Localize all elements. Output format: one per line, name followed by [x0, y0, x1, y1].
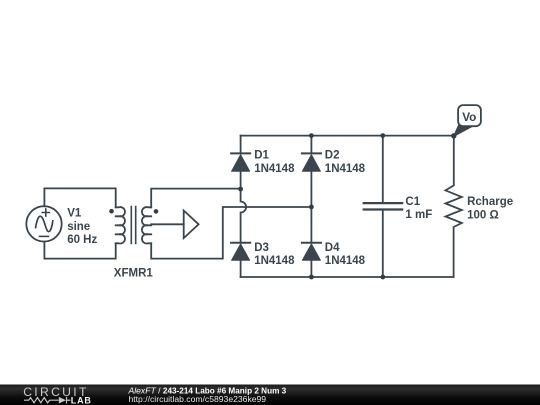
svg-text:1N4148: 1N4148	[254, 255, 295, 267]
svg-text:1N4148: 1N4148	[254, 163, 295, 175]
svg-text:C1: C1	[405, 196, 420, 208]
svg-text:1 mF: 1 mF	[405, 209, 432, 221]
svg-text:V1: V1	[67, 207, 82, 219]
svg-text:D3: D3	[254, 242, 269, 254]
svg-text:D1: D1	[254, 150, 269, 162]
svg-text:Rcharge: Rcharge	[467, 196, 513, 208]
svg-text:sine: sine	[67, 221, 90, 233]
svg-text:60 Hz: 60 Hz	[67, 234, 97, 246]
svg-text:XFMR1: XFMR1	[114, 267, 154, 279]
svg-text:1N4148: 1N4148	[325, 255, 366, 267]
svg-text:1N4148: 1N4148	[325, 163, 366, 175]
svg-text:Vo: Vo	[462, 110, 476, 124]
svg-text:D4: D4	[325, 242, 340, 254]
svg-text:LAB: LAB	[71, 395, 92, 405]
svg-text:100 Ω: 100 Ω	[467, 209, 499, 221]
svg-text:http://circuitlab.com/c5893e23: http://circuitlab.com/c5893e236ke99	[129, 394, 267, 404]
svg-text:D2: D2	[325, 150, 340, 162]
